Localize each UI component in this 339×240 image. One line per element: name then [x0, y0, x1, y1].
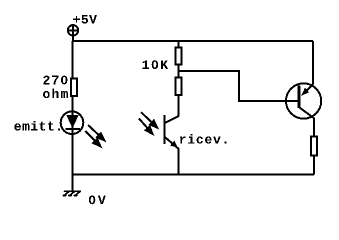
- resistor R4: [311, 137, 317, 156]
- wire from power terminal down to top rail junction: [72, 36, 74, 42]
- power terminal +5V: [68, 25, 78, 35]
- node A branch wire to transistor base: [179, 71, 298, 101]
- wire bottom rail: [72, 174, 314, 176]
- wire R1 to LED: [72, 97, 74, 112]
- label +5V: [73, 15, 97, 24]
- label 10K: [143, 60, 169, 69]
- wire top rail: [73, 40, 313, 42]
- ground: [63, 191, 80, 195]
- wire R4 to bottom rail: [313, 156, 315, 175]
- wire right vertical (top rail to Q2 emitter): [312, 41, 314, 85]
- light arrows (emission): [85, 125, 104, 146]
- wire rail to R2: [178, 41, 180, 47]
- label ricev.: [180, 134, 226, 144]
- phototransistor Q1 (ricev.): [164, 96, 178, 175]
- label emitt.: [14, 121, 60, 131]
- wire R2 to node A: [178, 66, 180, 78]
- wire Q2 collector to R4: [313, 118, 315, 137]
- label 0V: [89, 196, 106, 205]
- LED D1 (emitter): [61, 111, 84, 135]
- transistor Q2 (PNP): [286, 83, 321, 118]
- resistor R3: [176, 78, 182, 96]
- resistor R1 270 ohm: [71, 79, 77, 97]
- light arrows (reception): [139, 112, 157, 134]
- wire LED to bottom rail and ground: [71, 134, 73, 191]
- label 270 ohm: [43, 76, 68, 99]
- resistor R2 10K: [176, 48, 182, 65]
- wire left vertical (rail to R1): [72, 41, 74, 78]
